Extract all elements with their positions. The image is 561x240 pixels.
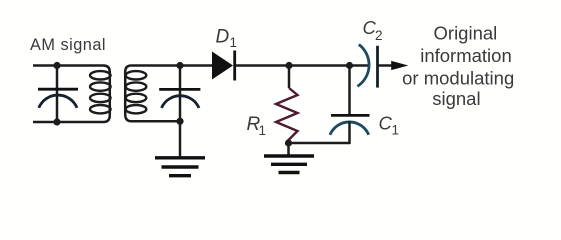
svg-text:1: 1: [230, 35, 238, 50]
node: R1 branch junction: [285, 62, 292, 69]
diode D1 triangle (anode): [212, 52, 233, 80]
capacitor (secondary tank) top plate: [159, 88, 200, 91]
capacitor (secondary tank) curved plate: [162, 96, 200, 108]
wire: secondary bottom rail from coil corner to ground node: [125, 108, 180, 121]
wire: detector output rail (cathode to C2): [236, 64, 369, 67]
svg-text:AM signal: AM signal: [30, 36, 106, 54]
capacitor C1 top plate: [331, 114, 370, 117]
capacitor (left tank) top plate: [38, 88, 78, 91]
wire: R1 top lead: [288, 66, 291, 89]
inductor L1 (primary coil, loops bulge left, spine right): [90, 71, 111, 113]
svg-text:or modulating: or modulating: [402, 67, 514, 88]
capacitor C1 curved plate: [330, 122, 369, 135]
wire: secondary top rail from coil corner to diode anode: [125, 66, 212, 109]
capacitor (left tank, variable) lead wire: [56, 66, 59, 123]
svg-text:C: C: [379, 113, 393, 134]
wire: secondary ground stub: [179, 121, 182, 156]
svg-text:1: 1: [392, 123, 400, 138]
wire: output arrow shaft: [378, 64, 397, 67]
wire: left tank top rail + corner into primary coil spine: [33, 66, 110, 109]
diode D1 cathode bar: [233, 51, 236, 81]
resistor R1 zigzag: [276, 88, 298, 143]
svg-text:2: 2: [375, 28, 383, 43]
svg-text:D: D: [216, 26, 230, 47]
wire: R1 ground stub: [287, 143, 290, 156]
svg-text:information: information: [420, 45, 512, 66]
node: tank top junction: [53, 62, 60, 69]
ground (secondary): [155, 158, 205, 176]
node: secondary bottom junction: [176, 118, 183, 125]
capacitor C2 straight plate: [376, 46, 379, 88]
ground (R1): [264, 156, 314, 173]
inductor L2 (secondary coil, loops bulge right, spine left): [126, 71, 147, 113]
wire: left tank bottom rail + corner from primary coil spine: [33, 108, 110, 122]
wire: C1 bottom lead: [348, 121, 351, 144]
node: C1/C2 junction: [346, 62, 353, 69]
node: R1 bottom junction: [285, 139, 292, 146]
node: tank bottom junction: [53, 118, 60, 125]
capacitor C2 curved plate: [358, 45, 370, 87]
node: secondary top junction: [176, 62, 183, 69]
capacitor (secondary tank, variable) lead wire: [179, 66, 182, 122]
output arrowhead: [391, 61, 408, 70]
wire: C1 top lead: [348, 66, 351, 116]
wire: bottom rail from R1 node to C1: [289, 142, 350, 145]
svg-text:signal: signal: [432, 88, 480, 109]
svg-text:1: 1: [259, 123, 267, 138]
capacitor (left tank) curved plate: [39, 95, 77, 108]
svg-text:Original: Original: [434, 23, 498, 44]
